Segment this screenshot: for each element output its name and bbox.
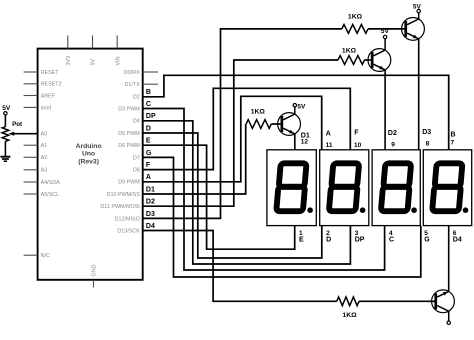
svg-text:D2: D2: [388, 130, 397, 137]
svg-text:D1: D1: [146, 186, 155, 193]
svg-text:B: B: [451, 132, 456, 139]
wire Q3 emitter to display pin 8: [418, 39, 420, 150]
display pin 3 label (DP): [355, 230, 365, 244]
svg-text:D3 PWM: D3 PWM: [118, 106, 140, 112]
svg-text:D4: D4: [133, 119, 140, 125]
svg-text:DP: DP: [355, 237, 365, 244]
5V supply terminal (Q1): [293, 103, 306, 110]
net label D: [146, 125, 151, 132]
wire net C (D3 to display pin 4): [143, 109, 385, 271]
wire pot to ground: [4, 141, 6, 156]
wire net F (D8 to display pin 10): [143, 88, 351, 169]
U1 pin D13/SCK: [117, 228, 140, 234]
svg-text:G: G: [424, 237, 430, 244]
svg-text:Arduino: Arduino: [76, 143, 102, 150]
svg-text:A3: A3: [41, 168, 48, 174]
U1 pin A3: [24, 168, 48, 174]
svg-text:D8: D8: [133, 168, 140, 174]
svg-text:RESET: RESET: [41, 70, 60, 76]
svg-text:D12/MISO: D12/MISO: [115, 216, 140, 222]
svg-text:9: 9: [391, 141, 395, 148]
svg-text:C: C: [389, 237, 394, 244]
U1 pin ioref: [24, 105, 52, 111]
U1 pin D12/MISO: [115, 216, 140, 222]
svg-text:D3: D3: [146, 211, 155, 218]
svg-text:A: A: [326, 131, 331, 138]
svg-text:Uno: Uno: [82, 151, 95, 158]
wire Q3 collector to 5V: [418, 13, 420, 19]
potentiometer Pot: [2, 121, 22, 141]
display digit 1 glyph 8 with decimal point: [276, 163, 313, 213]
svg-text:D4: D4: [146, 223, 155, 230]
wire Q2 emitter to display pin 9: [384, 70, 386, 150]
svg-text:D2: D2: [133, 95, 140, 101]
svg-text:5V: 5V: [297, 103, 306, 110]
U1 pin A2: [24, 155, 48, 161]
svg-text:A5/SCL: A5/SCL: [41, 192, 60, 198]
svg-text:1KΩ: 1KΩ: [348, 13, 363, 20]
display pin 10 label (F): [354, 129, 362, 149]
display pin 5 label (G): [424, 230, 430, 244]
wire net A (D9 to display pin 11): [143, 96, 322, 182]
svg-text:GND: GND: [92, 264, 98, 276]
display pin 2 label (D): [326, 230, 331, 244]
wire Q2 collector to 5V: [384, 39, 386, 51]
svg-text:3V3: 3V3: [66, 56, 72, 66]
net label B: [146, 89, 151, 96]
svg-text:ioref: ioref: [41, 105, 52, 111]
U1 pin A0: [41, 131, 48, 137]
svg-text:D5 PWM: D5 PWM: [118, 131, 140, 137]
svg-text:Pot: Pot: [12, 121, 22, 128]
svg-text:1KΩ: 1KΩ: [251, 109, 266, 116]
resistor R2 1KΩ: [338, 48, 365, 65]
svg-text:5V: 5V: [91, 59, 97, 66]
wire net G (D7 to display pin 5): [143, 157, 421, 277]
U1 pin D9 PWM: [118, 180, 140, 186]
svg-text:VIN: VIN: [115, 56, 121, 65]
svg-text:1KΩ: 1KΩ: [342, 48, 357, 55]
wire net D1 (D10 to R1): [143, 124, 246, 194]
net label D1: [146, 186, 155, 193]
transistor Q3 (digit 3 driver): [402, 18, 425, 41]
svg-text:A4/SDA: A4/SDA: [41, 180, 61, 186]
U1 bottom pin GND: [92, 264, 98, 287]
net label A: [146, 174, 151, 181]
wire pot wiper to A0: [9, 132, 39, 136]
wire 5V to pot: [4, 115, 6, 127]
display pin 4 label (C): [389, 230, 394, 244]
svg-text:12: 12: [301, 138, 309, 145]
U1 pin AREF: [24, 93, 56, 99]
display pin 9 label (D2): [388, 130, 397, 148]
U1 top pin 5V: [91, 36, 97, 66]
5V supply terminal (Q4): [447, 321, 450, 324]
net label G: [146, 150, 152, 157]
U1 pin D6 PWM: [118, 143, 140, 149]
svg-text:E: E: [146, 138, 151, 145]
net label DP: [146, 113, 156, 120]
net label F: [146, 162, 151, 169]
svg-text:5V: 5V: [2, 105, 11, 112]
svg-text:5V: 5V: [381, 28, 390, 35]
svg-text:A0: A0: [41, 131, 48, 137]
net label C: [146, 101, 151, 108]
U1 pin D11 PWM/MOSI: [100, 204, 139, 210]
5V supply terminal (Q2): [381, 28, 390, 39]
resistor R1 1KΩ: [246, 109, 271, 129]
net label E: [146, 138, 151, 145]
svg-text:D6 PWM: D6 PWM: [118, 143, 140, 149]
wire R2 to Q2 base: [365, 59, 371, 61]
svg-text:D13/SCK: D13/SCK: [117, 228, 140, 234]
display digit 4 glyph 8 with decimal point: [432, 163, 468, 213]
svg-text:F: F: [146, 162, 151, 169]
svg-text:B: B: [146, 89, 151, 96]
svg-text:G: G: [146, 150, 152, 157]
transistor Q1 (digit 1 driver): [278, 113, 301, 136]
display DS1 digit 3 box: [372, 150, 420, 226]
svg-text:D: D: [326, 237, 331, 244]
wire Q4 collector to 5V: [448, 311, 450, 321]
ground: [0, 157, 10, 162]
svg-text:D9 PWM: D9 PWM: [118, 180, 140, 186]
svg-text:1KΩ: 1KΩ: [342, 312, 357, 319]
svg-text:8: 8: [426, 141, 430, 148]
display pin 11 label (A): [326, 131, 333, 150]
display DS1 digit 2 box: [320, 150, 369, 226]
U1 pin D8: [133, 168, 140, 174]
wire net D2 (D11 to R2): [143, 60, 338, 206]
Arduino Uno U1 body: [38, 49, 143, 280]
svg-text:A1: A1: [41, 143, 48, 149]
net label D3: [146, 211, 155, 218]
display pin 1 label (E): [299, 230, 304, 244]
svg-text:C: C: [146, 101, 151, 108]
svg-text:D3: D3: [422, 129, 431, 136]
U1 top pin VIN: [115, 36, 121, 66]
wire net D (D5 to display pin 2): [143, 133, 322, 258]
wire net D3 (D12 to R3): [143, 29, 342, 219]
wire net D4 (D13 to R4): [143, 231, 337, 302]
net label D4: [146, 223, 155, 230]
svg-text:D0/RX: D0/RX: [124, 70, 140, 76]
wire net E (D6 to display pin 1): [143, 145, 295, 249]
U1 pin D7: [133, 155, 140, 161]
svg-text:AREF: AREF: [41, 93, 56, 99]
svg-text:D: D: [146, 125, 151, 132]
5V supply terminal (Q3): [413, 4, 422, 13]
wire Q4 emitter to display pin 6: [448, 226, 450, 292]
U1 top pin 3V3: [66, 36, 72, 66]
net label D2: [146, 199, 155, 206]
U1 pin RESET2: [24, 82, 62, 88]
svg-text:(Rev3): (Rev3): [78, 158, 99, 165]
wire net B (D2 to display pin 7): [143, 75, 449, 150]
display pin 8 label (D3): [422, 129, 431, 147]
U1 pin D2: [133, 95, 140, 101]
U1 pin D0/RX: [124, 70, 158, 76]
display digit 3 glyph 8 with decimal point: [381, 163, 417, 213]
svg-text:7: 7: [451, 139, 455, 146]
U1 pin A4/SDA: [24, 180, 61, 186]
U1 pin D10 PWM/SS: [107, 192, 141, 198]
5V supply terminal (pot): [2, 105, 11, 115]
svg-text:D2: D2: [146, 199, 155, 206]
display pin 12 label (D1): [301, 133, 310, 146]
wire Q1 collector to 5V: [294, 107, 296, 114]
U1 pin A1: [24, 143, 48, 149]
U1 pin D5 PWM: [118, 131, 140, 137]
svg-text:A: A: [146, 174, 151, 181]
svg-text:DP: DP: [146, 113, 156, 120]
svg-text:N/C: N/C: [41, 253, 50, 259]
display DS1 digit 4 box: [423, 150, 471, 226]
display digit 2 glyph 8 with decimal point: [329, 163, 366, 213]
svg-text:F: F: [354, 129, 359, 136]
wire Q1 emitter to display pin 12: [294, 134, 296, 150]
U1 pin N/C: [24, 253, 50, 259]
display DS1 digit 1 box: [267, 150, 316, 226]
U1 pin A5/SCL: [24, 192, 60, 198]
U1 pin D3 PWM: [118, 106, 140, 112]
resistor R3 1KΩ: [342, 13, 368, 33]
U1 pin RESET: [24, 70, 60, 76]
display pin 6 label (D4): [453, 230, 462, 244]
svg-text:D10 PWM/SS: D10 PWM/SS: [107, 192, 141, 198]
transistor Q2 (digit 2 driver): [368, 49, 391, 72]
svg-text:D4: D4: [453, 237, 462, 244]
svg-text:11: 11: [326, 142, 333, 149]
resistor R4 1KΩ: [337, 297, 359, 319]
transistor Q4 (digit 4 driver): [432, 290, 455, 313]
svg-text:D11 PWM/MOSI: D11 PWM/MOSI: [100, 204, 139, 210]
svg-text:D7: D7: [133, 155, 140, 161]
wire R4 to Q4 base: [359, 300, 435, 302]
U1 pin D4: [133, 119, 140, 125]
svg-text:RESET2: RESET2: [41, 82, 62, 88]
svg-text:A2: A2: [41, 155, 48, 161]
svg-text:E: E: [299, 237, 304, 244]
svg-text:5V: 5V: [413, 4, 422, 11]
display pin 7 label (B): [451, 132, 456, 147]
wire net DP (D4 to display pin 3): [143, 121, 351, 264]
svg-text:10: 10: [354, 142, 362, 149]
U1 label Arduino Uno (Rev3): [76, 143, 102, 165]
wire R1 to Q1 base: [271, 123, 280, 125]
svg-text:D1/TX: D1/TX: [125, 82, 141, 88]
U1 pin D1/TX: [125, 82, 158, 88]
wire R3 to Q3 base: [368, 28, 405, 30]
